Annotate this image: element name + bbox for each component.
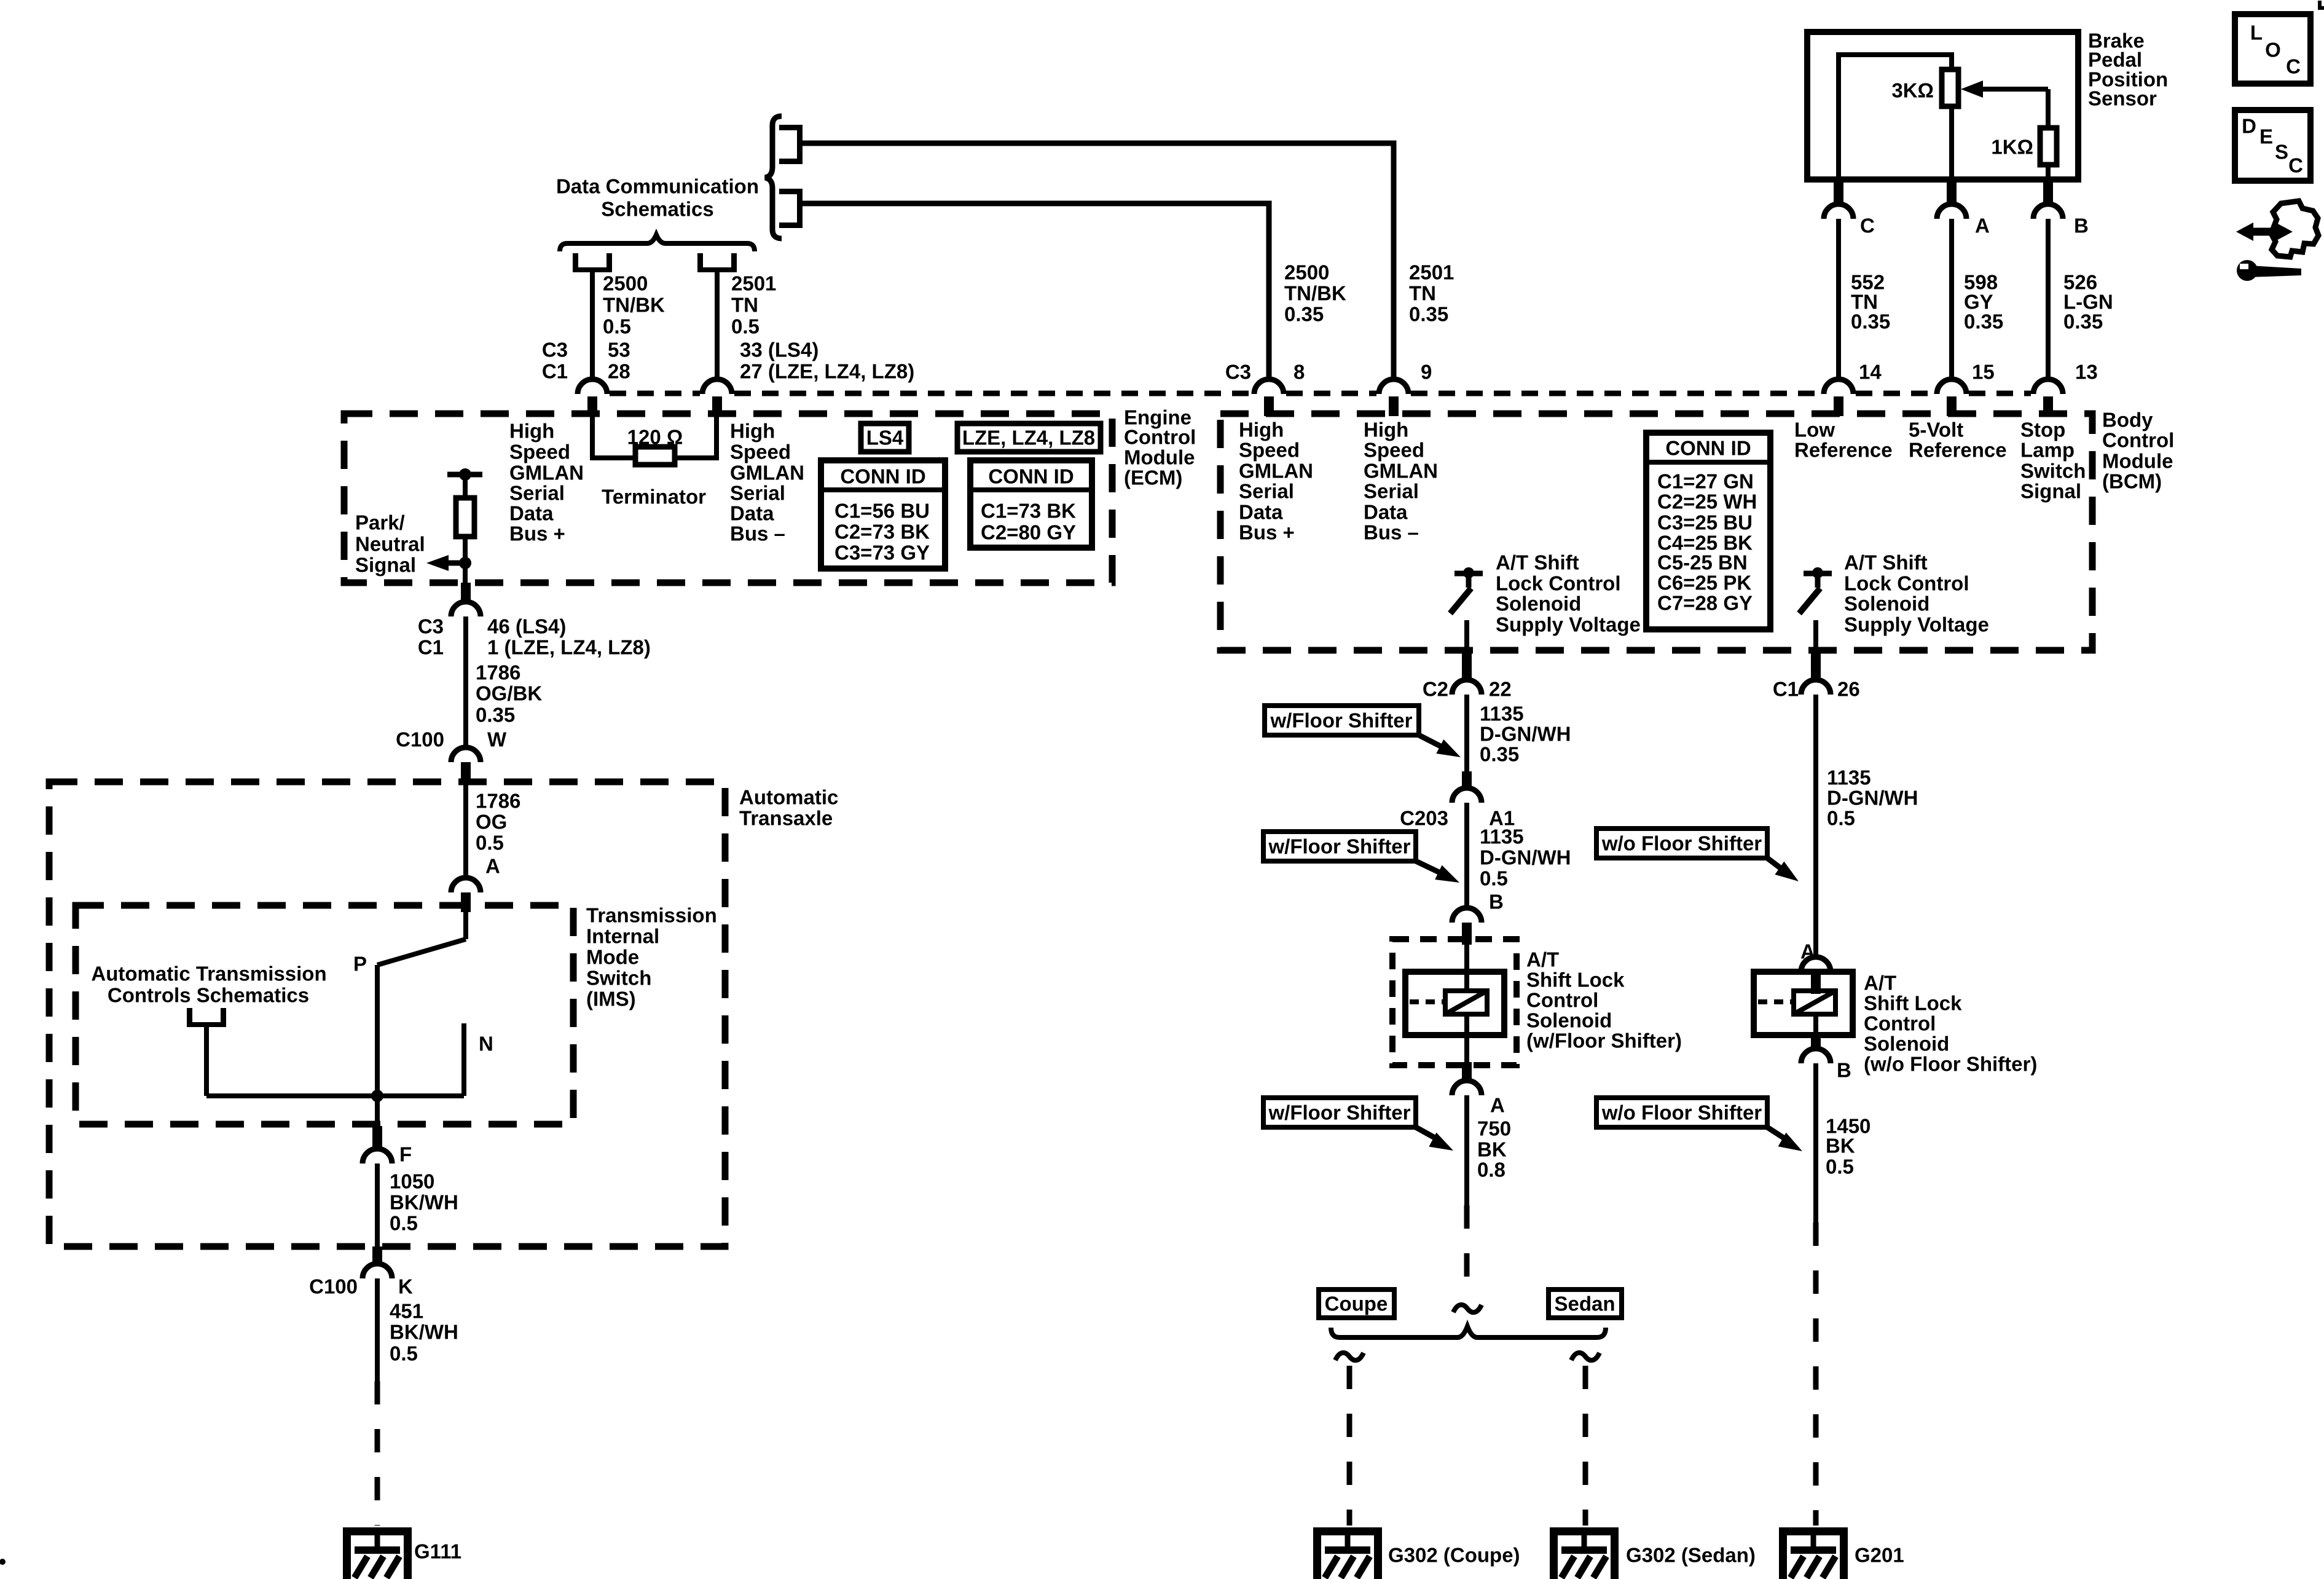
svg-text:Speed: Speed — [1364, 439, 1424, 462]
svg-text:Schematics: Schematics — [601, 198, 713, 221]
svg-text:Supply Voltage: Supply Voltage — [1844, 613, 1989, 636]
svg-text:Module: Module — [1124, 446, 1195, 469]
svg-text:BK/WH: BK/WH — [390, 1191, 458, 1214]
svg-text:Shift Lock: Shift Lock — [1526, 969, 1625, 991]
svg-text:0.35: 0.35 — [1284, 303, 1324, 326]
svg-text:0.5: 0.5 — [1480, 867, 1508, 890]
svg-text:C2=73 BK: C2=73 BK — [834, 521, 930, 543]
svg-text:C1=27 GN: C1=27 GN — [1657, 470, 1754, 493]
svg-text:OG: OG — [476, 811, 507, 833]
svg-text:0.5: 0.5 — [731, 315, 760, 338]
svg-text:0.5: 0.5 — [1827, 807, 1855, 830]
svg-text:A: A — [1490, 1094, 1505, 1117]
svg-text:Controls Schematics: Controls Schematics — [108, 984, 309, 1007]
svg-text:Stop: Stop — [2020, 419, 2065, 441]
svg-text:D-GN/WH: D-GN/WH — [1480, 723, 1571, 746]
svg-text:28: 28 — [608, 360, 630, 383]
svg-text:(IMS): (IMS) — [586, 988, 636, 1010]
svg-text:Transaxle: Transaxle — [739, 807, 833, 830]
svg-text:(ECM): (ECM) — [1124, 467, 1182, 489]
svg-text:CONN ID: CONN ID — [840, 465, 925, 488]
svg-text:A/T: A/T — [1526, 948, 1559, 971]
svg-text:C: C — [1860, 215, 1875, 237]
svg-text:Bus +: Bus + — [1239, 521, 1295, 544]
svg-text:33 (LS4): 33 (LS4) — [740, 339, 819, 361]
svg-text:1135: 1135 — [1480, 703, 1524, 725]
svg-text:Module: Module — [2102, 450, 2173, 473]
svg-text:8: 8 — [1294, 361, 1305, 384]
svg-text:451: 451 — [390, 1300, 423, 1323]
svg-text:TN: TN — [1409, 282, 1436, 305]
svg-text:Automatic: Automatic — [739, 786, 838, 809]
svg-text:Supply Voltage: Supply Voltage — [1496, 613, 1641, 636]
svg-text:Serial: Serial — [509, 482, 565, 505]
svg-text:Reference: Reference — [1909, 439, 2007, 462]
svg-text:TN/BK: TN/BK — [603, 294, 665, 317]
svg-text:High: High — [509, 420, 554, 443]
svg-text:Reference: Reference — [1794, 439, 1893, 462]
svg-text:53: 53 — [608, 339, 630, 361]
svg-text:C1=73 BK: C1=73 BK — [981, 500, 1076, 522]
svg-text:G302 (Coupe): G302 (Coupe) — [1388, 1544, 1520, 1567]
svg-text:A/T Shift: A/T Shift — [1844, 551, 1928, 574]
svg-text:C1: C1 — [418, 636, 444, 659]
svg-text:LS4: LS4 — [866, 427, 904, 449]
svg-text:15: 15 — [1972, 361, 1995, 384]
svg-text:0.35: 0.35 — [2063, 310, 2103, 333]
svg-text:0.5: 0.5 — [390, 1212, 418, 1235]
svg-text:L: L — [2250, 22, 2263, 44]
svg-text:GMLAN: GMLAN — [730, 462, 804, 484]
svg-text:Control: Control — [1124, 426, 1196, 449]
svg-text:w/o Floor Shifter: w/o Floor Shifter — [1601, 832, 1762, 855]
svg-text:Neutral: Neutral — [355, 533, 425, 556]
svg-text:0.8: 0.8 — [1477, 1159, 1505, 1181]
svg-text:Data Communication: Data Communication — [556, 175, 759, 198]
svg-text:TN: TN — [731, 294, 758, 317]
svg-text:N: N — [479, 1033, 493, 1055]
svg-text:26: 26 — [1837, 678, 1860, 701]
svg-text:w/Floor Shifter: w/Floor Shifter — [1268, 835, 1411, 858]
svg-text:C100: C100 — [309, 1275, 358, 1298]
svg-text:Lock Control: Lock Control — [1844, 572, 1969, 595]
svg-text:D: D — [2242, 115, 2256, 138]
svg-text:G111: G111 — [414, 1540, 461, 1563]
svg-text:1KΩ: 1KΩ — [1991, 136, 2033, 159]
svg-text:Data: Data — [1364, 501, 1408, 524]
svg-text:0.35: 0.35 — [1409, 303, 1448, 326]
svg-text:Bus –: Bus – — [730, 522, 785, 545]
svg-text:Signal: Signal — [2020, 480, 2081, 503]
svg-text:C1: C1 — [542, 360, 568, 383]
svg-text:GMLAN: GMLAN — [1364, 460, 1438, 482]
svg-text:Control: Control — [2102, 429, 2174, 452]
svg-text:1 (LZE, LZ4, LZ8): 1 (LZE, LZ4, LZ8) — [487, 636, 651, 659]
svg-text:C2=80 GY: C2=80 GY — [981, 521, 1076, 544]
svg-text:Bus +: Bus + — [509, 522, 565, 545]
svg-text:C2: C2 — [1423, 678, 1448, 701]
svg-text:0.35: 0.35 — [1964, 310, 2003, 333]
svg-text:Switch: Switch — [586, 967, 651, 990]
svg-text:O: O — [2265, 39, 2281, 61]
svg-text:High: High — [1239, 419, 1284, 441]
svg-text:BK/WH: BK/WH — [390, 1321, 458, 1344]
svg-text:22: 22 — [1489, 678, 1512, 701]
svg-text:750: 750 — [1477, 1117, 1511, 1140]
svg-text:Sensor: Sensor — [2088, 87, 2157, 110]
svg-text:C100: C100 — [396, 728, 444, 751]
svg-text:C2=25 WH: C2=25 WH — [1657, 490, 1757, 513]
svg-text:Data: Data — [1239, 501, 1283, 524]
svg-text:5-Volt: 5-Volt — [1909, 419, 1963, 441]
svg-text:D-GN/WH: D-GN/WH — [1827, 787, 1918, 809]
svg-text:P: P — [353, 953, 367, 975]
svg-text:GMLAN: GMLAN — [1239, 460, 1313, 482]
svg-text:Control: Control — [1526, 989, 1598, 1012]
svg-text:B: B — [1837, 1059, 1851, 1082]
svg-text:2501: 2501 — [1409, 261, 1454, 284]
svg-text:w/Floor Shifter: w/Floor Shifter — [1270, 709, 1413, 732]
svg-text:Serial: Serial — [730, 482, 785, 505]
svg-text:3KΩ: 3KΩ — [1891, 79, 1934, 102]
svg-text:C3: C3 — [1225, 361, 1251, 384]
svg-text:C6=25 PK: C6=25 PK — [1657, 572, 1751, 594]
svg-text:Lamp: Lamp — [2020, 439, 2075, 462]
svg-text:G201: G201 — [1855, 1544, 1904, 1567]
svg-text:27 (LZE, LZ4, LZ8): 27 (LZE, LZ4, LZ8) — [740, 360, 914, 383]
svg-text:OG/BK: OG/BK — [476, 682, 542, 705]
svg-text:14: 14 — [1859, 361, 1882, 384]
svg-text:Lock Control: Lock Control — [1496, 572, 1621, 595]
svg-text:BK: BK — [1477, 1138, 1507, 1161]
svg-text:Coupe: Coupe — [1325, 1293, 1388, 1315]
svg-text:13: 13 — [2075, 361, 2098, 384]
svg-text:(BCM): (BCM) — [2102, 470, 2162, 493]
svg-text:C: C — [2288, 154, 2303, 177]
svg-text:Solenoid: Solenoid — [1526, 1009, 1612, 1032]
svg-text:D-GN/WH: D-GN/WH — [1480, 846, 1571, 869]
svg-text:C3=73 GY: C3=73 GY — [834, 541, 930, 564]
svg-text:TN/BK: TN/BK — [1284, 282, 1346, 305]
svg-text:0.35: 0.35 — [476, 704, 515, 726]
svg-text:1786: 1786 — [476, 790, 520, 813]
svg-text:E: E — [2259, 125, 2273, 148]
svg-text:C3: C3 — [418, 615, 444, 638]
svg-text:0.5: 0.5 — [603, 315, 631, 338]
svg-text:C3=25 BU: C3=25 BU — [1657, 511, 1753, 534]
svg-text:Park/: Park/ — [355, 511, 405, 534]
svg-text:1786: 1786 — [476, 661, 520, 684]
svg-text:Data: Data — [730, 502, 774, 525]
svg-text:9: 9 — [1421, 361, 1432, 384]
svg-text:2501: 2501 — [731, 272, 776, 295]
svg-text:C203: C203 — [1400, 807, 1448, 830]
svg-text:Transmission: Transmission — [586, 904, 717, 927]
svg-text:C7=28 GY: C7=28 GY — [1657, 592, 1753, 615]
svg-text:1050: 1050 — [390, 1170, 434, 1193]
svg-text:C: C — [2286, 55, 2301, 78]
svg-text:Speed: Speed — [509, 441, 570, 463]
svg-text:Serial: Serial — [1239, 480, 1294, 503]
svg-text:B: B — [2074, 215, 2089, 237]
svg-text:0.5: 0.5 — [476, 832, 504, 854]
svg-text:w/o Floor Shifter: w/o Floor Shifter — [1601, 1101, 1762, 1124]
svg-text:Bus –: Bus – — [1364, 521, 1419, 544]
svg-text:(w/Floor Shifter): (w/Floor Shifter) — [1526, 1030, 1682, 1052]
svg-text:Terminator: Terminator — [602, 486, 706, 508]
svg-text:W: W — [487, 728, 507, 751]
svg-text:B: B — [1489, 891, 1504, 913]
svg-text:Switch: Switch — [2020, 460, 2086, 482]
svg-text:GMLAN: GMLAN — [509, 462, 584, 484]
svg-text:46 (LS4): 46 (LS4) — [487, 615, 566, 638]
svg-text:Signal: Signal — [355, 554, 416, 577]
svg-text:Shift Lock: Shift Lock — [1864, 992, 1962, 1015]
svg-text:Automatic Transmission: Automatic Transmission — [91, 963, 326, 985]
svg-text:BK: BK — [1826, 1135, 1855, 1157]
svg-text:C3: C3 — [542, 339, 568, 361]
svg-text:0.35: 0.35 — [1480, 743, 1519, 766]
svg-text:Mode: Mode — [586, 946, 639, 969]
svg-text:(w/o Floor Shifter): (w/o Floor Shifter) — [1864, 1053, 2037, 1076]
svg-text:A: A — [1975, 215, 1990, 237]
svg-text:LZE, LZ4, LZ8: LZE, LZ4, LZ8 — [962, 427, 1095, 449]
svg-text:High: High — [730, 420, 775, 443]
svg-text:Internal: Internal — [586, 925, 659, 948]
svg-text:A: A — [485, 855, 500, 878]
svg-text:0.5: 0.5 — [1826, 1156, 1854, 1178]
svg-text:120 Ω: 120 Ω — [627, 426, 683, 449]
svg-text:A/T Shift: A/T Shift — [1496, 551, 1579, 574]
svg-text:Speed: Speed — [1239, 439, 1300, 462]
svg-text:Data: Data — [509, 502, 554, 525]
svg-text:S: S — [2275, 141, 2288, 163]
svg-text:Speed: Speed — [730, 441, 791, 463]
svg-text:Sedan: Sedan — [1554, 1293, 1615, 1315]
svg-text:Serial: Serial — [1364, 480, 1419, 503]
svg-text:A/T: A/T — [1864, 972, 1896, 994]
svg-text:1135: 1135 — [1480, 825, 1524, 848]
svg-text:1135: 1135 — [1827, 766, 1871, 789]
svg-text:Control: Control — [1864, 1012, 1936, 1035]
svg-text:Body: Body — [2102, 409, 2153, 431]
svg-text:0.5: 0.5 — [390, 1342, 418, 1365]
svg-text:C5-25 BN: C5-25 BN — [1657, 551, 1748, 574]
svg-text:Solenoid: Solenoid — [1864, 1033, 1949, 1055]
svg-text:w/Floor Shifter: w/Floor Shifter — [1268, 1101, 1411, 1124]
svg-text:High: High — [1364, 419, 1408, 441]
svg-text:F: F — [399, 1143, 412, 1166]
svg-text:Low: Low — [1794, 419, 1835, 441]
svg-text:C1=56 BU: C1=56 BU — [834, 500, 930, 522]
svg-text:Solenoid: Solenoid — [1844, 593, 1929, 615]
svg-text:C1: C1 — [1773, 678, 1799, 701]
svg-text:0.35: 0.35 — [1851, 310, 1890, 333]
svg-text:2500: 2500 — [603, 272, 648, 295]
svg-text:CONN ID: CONN ID — [1665, 437, 1751, 460]
svg-text:K: K — [398, 1275, 413, 1298]
svg-text:CONN ID: CONN ID — [988, 465, 1074, 488]
svg-text:G302 (Sedan): G302 (Sedan) — [1626, 1544, 1756, 1567]
svg-text:Solenoid: Solenoid — [1496, 593, 1581, 615]
svg-text:2500: 2500 — [1284, 261, 1329, 284]
